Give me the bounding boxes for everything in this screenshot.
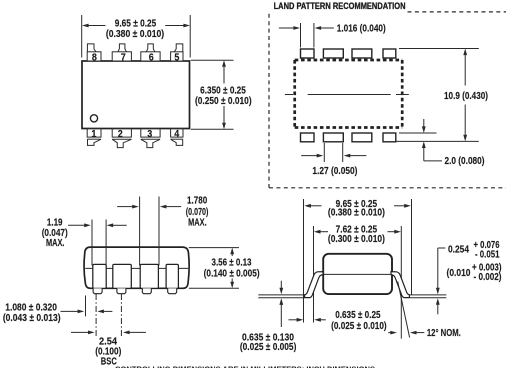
2.0 arrows: [423, 119, 425, 127]
right lead (side view): [391, 272, 409, 298]
1.080 reference line: [85, 296, 87, 317]
svg-text:8: 8: [92, 52, 97, 63]
1.780 arrows: [117, 206, 133, 208]
left lead (side view): [305, 272, 323, 298]
1.27 arrows: [301, 155, 317, 157]
svg-text:(0.250 ± 0.010): (0.250 ± 0.010): [195, 96, 252, 107]
svg-text:4: 4: [174, 129, 179, 140]
3.56 arrows: [231, 254, 233, 256]
pin 3 (bottom): [141, 129, 160, 148]
pin 8 (top, edge): [87, 44, 101, 61]
7.62 arrows: [320, 231, 328, 233]
svg-text:1.780: 1.780: [187, 196, 207, 207]
pin-1 indicator circle: [90, 115, 97, 122]
svg-text:9.65 ± 0.25: 9.65 ± 0.25: [115, 19, 157, 30]
package body (end view): [84, 247, 189, 288]
svg-text:6: 6: [149, 52, 154, 63]
svg-text:0.254: 0.254: [448, 244, 469, 255]
pin 6 (top): [141, 44, 160, 61]
dimension line + arrow right (9.65): [165, 25, 184, 27]
12 degree arrows: [388, 332, 391, 334]
svg-text:- 0.051: - 0.051: [475, 249, 500, 260]
svg-text:- 0.002): - 0.002): [474, 272, 502, 283]
6.350 dim extension lines: [191, 59, 234, 61]
7.62 extension lines: [313, 226, 315, 323]
1.016 extension lines: [300, 23, 302, 48]
0.635/0.25 arrows (bottom middle): [289, 319, 298, 321]
lead 1 (end view): [93, 264, 106, 288]
seating plane lines right: [410, 294, 446, 296]
lead 2 (end view): [113, 264, 132, 288]
foot 3: [142, 288, 151, 293]
svg-text:6.350 ± 0.25: 6.350 ± 0.25: [200, 85, 246, 96]
parting line: [321, 273, 394, 275]
foot 2: [117, 288, 126, 293]
svg-text:3: 3: [147, 129, 152, 140]
seating plane lines left: [258, 294, 304, 296]
0.635/0.130 arrows (left): [280, 281, 282, 289]
svg-text:(0.043 ± 0.013): (0.043 ± 0.013): [3, 313, 61, 324]
svg-text:(0.300 ± 0.010): (0.300 ± 0.010): [328, 234, 385, 245]
svg-text:LAND PATTERN RECOMMENDATION: LAND PATTERN RECOMMENDATION: [274, 1, 406, 11]
pin 4 (bottom, edge): [171, 129, 183, 146]
svg-text:7: 7: [121, 52, 126, 63]
pads top row: [301, 49, 396, 58]
svg-text:(0.070): (0.070): [186, 207, 209, 218]
svg-text:(0.380 ± 0.010): (0.380 ± 0.010): [328, 208, 385, 219]
svg-text:(0.380 ± 0.010): (0.380 ± 0.010): [106, 29, 164, 40]
centerline: [308, 94, 391, 96]
0.254 leader elbow: [438, 247, 446, 249]
pin 7 (top): [112, 44, 131, 61]
lead 4 (end view): [166, 264, 178, 288]
foot 4: [168, 288, 177, 293]
1.780 extension lines: [139, 197, 141, 266]
2.54 arrows: [71, 331, 89, 333]
svg-text:2.0 (0.080): 2.0 (0.080): [445, 156, 485, 167]
3.56 extension lines: [189, 247, 239, 249]
svg-text:MAX.: MAX.: [46, 238, 65, 249]
pin 5 (top, edge): [171, 44, 183, 61]
svg-text:3.56 ± 0.13: 3.56 ± 0.13: [212, 257, 252, 268]
extension line right of 9.65 dim: [189, 15, 191, 58]
svg-text:(0.010: (0.010: [447, 268, 471, 279]
1.080 arrow: [61, 310, 79, 312]
1.19 extension lines: [91, 220, 93, 266]
extension line left of 9.65 dim: [81, 15, 83, 58]
9.65 extension lines: [303, 199, 305, 323]
svg-text:1.080 ± 0.320: 1.080 ± 0.320: [5, 302, 57, 313]
svg-text:(0.025 ± 0.010): (0.025 ± 0.010): [331, 321, 387, 332]
package outline dashed rect: [295, 60, 403, 128]
dashed boundary bottom: [269, 187, 506, 189]
2.0 extension line top: [399, 132, 437, 134]
1.016 arrows: [279, 27, 294, 29]
pin 1 (bottom, edge): [87, 129, 101, 146]
dashed boundary top: [408, 11, 506, 13]
svg-text:12° NOM.: 12° NOM.: [427, 328, 461, 339]
svg-text:1: 1: [91, 129, 96, 140]
6.350 dim arrows: [223, 66, 225, 84]
dashed boundary left: [268, 14, 270, 188]
lead centerline 1: [95, 294, 97, 338]
1.19 arrows: [68, 224, 85, 226]
dimension line + arrow left (9.65): [88, 25, 106, 27]
mold ledge line: [85, 267, 188, 269]
svg-text:0.635 ± 0.25: 0.635 ± 0.25: [335, 310, 381, 321]
lead centerline 2: [120, 294, 122, 338]
svg-text:(0.025 ± 0.005): (0.025 ± 0.005): [240, 342, 297, 353]
pin 2 (bottom): [112, 129, 131, 148]
svg-text:MAX.: MAX.: [188, 217, 207, 228]
package body (top view): [82, 61, 190, 129]
10.9 arrows: [464, 55, 466, 86]
10.9 extension lines: [399, 48, 479, 50]
1.27 extension lines: [323, 143, 325, 162]
svg-text:(0.140 ± 0.005): (0.140 ± 0.005): [204, 268, 260, 279]
pads bottom row: [301, 133, 396, 142]
svg-text:1.27 (0.050): 1.27 (0.050): [312, 166, 357, 177]
svg-text:10.9 (0.430): 10.9 (0.430): [444, 91, 488, 102]
svg-text:2: 2: [118, 129, 123, 140]
lead 3 (end view): [140, 264, 158, 288]
svg-text:1.016 (0.040): 1.016 (0.040): [337, 24, 386, 35]
package body (side view): [323, 254, 392, 294]
9.65 arrows: [310, 205, 321, 207]
1.080 second arrow: [97, 310, 104, 314]
foot 1: [93, 288, 102, 293]
12 degree slant line: [398, 282, 410, 338]
svg-text:5: 5: [174, 52, 179, 63]
